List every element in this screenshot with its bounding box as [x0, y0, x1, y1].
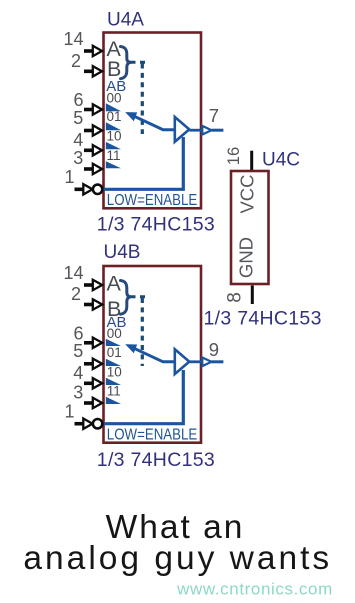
- svg-text:4: 4: [73, 130, 83, 150]
- svg-text:7: 7: [209, 105, 219, 126]
- output wire to border: [189, 129, 202, 132]
- svg-text:11: 11: [107, 148, 121, 163]
- output buffer triangle: [175, 117, 190, 142]
- pin 16 stub: [250, 151, 253, 170]
- svg-text:1/3 74HC153: 1/3 74HC153: [97, 213, 215, 235]
- pin 6 arrow: [84, 104, 102, 114]
- output arrowhead (U4B): [202, 358, 211, 367]
- pin 5 arrow (U4B): [84, 359, 102, 369]
- svg-text:5: 5: [73, 108, 83, 128]
- pin 14 arrow (U4B): [84, 280, 102, 290]
- input triangle 01 (U4B): [106, 359, 121, 366]
- svg-text:LOW=ENABLE: LOW=ENABLE: [107, 192, 198, 209]
- pin 3 arrow: [84, 164, 102, 174]
- output buffer triangle (U4B): [175, 349, 190, 374]
- input triangle 10: [106, 142, 121, 149]
- mux U4A body: [104, 33, 202, 209]
- svg-text:2: 2: [71, 284, 81, 304]
- svg-text:2: 2: [71, 51, 81, 71]
- input triangle 10 (U4B): [106, 378, 121, 385]
- svg-text:9: 9: [209, 339, 219, 360]
- mux U4B body: [104, 266, 202, 443]
- svg-text:U4C: U4C: [262, 150, 300, 171]
- svg-text:LOW=ENABLE: LOW=ENABLE: [107, 426, 198, 443]
- pin 4 arrow (U4B): [84, 378, 102, 388]
- select dashed wire horizontal: [130, 61, 145, 64]
- brace joining A and B (U4B): [121, 281, 131, 315]
- svg-text:1/3 74HC153: 1/3 74HC153: [97, 449, 215, 471]
- svg-text:GND: GND: [235, 237, 256, 278]
- pin 1 enable arrow with bubble: [75, 184, 103, 194]
- enable wire: [104, 137, 184, 189]
- pin 1 enable arrow with bubble (U4B): [75, 419, 103, 429]
- select dashed wire vertical: [141, 64, 144, 135]
- svg-text:U4A: U4A: [107, 10, 144, 31]
- svg-text:14: 14: [63, 263, 83, 283]
- pin 2 arrow: [84, 66, 102, 76]
- select dashed wire vertical (U4B): [141, 298, 144, 366]
- wiper select arrow: [125, 112, 174, 130]
- output arrowhead: [202, 126, 211, 135]
- svg-text:4: 4: [73, 363, 83, 383]
- wiper select arrow (U4B): [125, 344, 174, 362]
- svg-text:00: 00: [107, 91, 122, 106]
- svg-text:10: 10: [107, 129, 122, 144]
- svg-text:1: 1: [64, 401, 74, 421]
- brace joining A and B: [121, 47, 131, 79]
- svg-text:14: 14: [63, 29, 83, 49]
- pin 3 arrow (U4B): [84, 398, 102, 408]
- output wire to border (U4B): [189, 360, 202, 363]
- input triangle 01: [106, 122, 121, 130]
- svg-text:11: 11: [107, 383, 121, 398]
- pin 14 arrow: [84, 46, 102, 56]
- svg-text:A: A: [107, 272, 122, 296]
- svg-text:8: 8: [225, 292, 246, 303]
- svg-text:1/3 74HC153: 1/3 74HC153: [204, 308, 322, 330]
- pin 2 arrow (U4B): [84, 299, 102, 309]
- pin 8 stub: [251, 286, 254, 305]
- select dashed wire horizontal (U4B): [130, 295, 145, 298]
- enable wire (U4B): [104, 370, 184, 424]
- input triangle 00 (U4B): [106, 339, 121, 346]
- pin 6 arrow (U4B): [84, 338, 102, 348]
- pin 5 arrow: [84, 125, 102, 135]
- svg-text:16: 16: [225, 147, 243, 165]
- svg-text:3: 3: [73, 148, 83, 168]
- svg-text:00: 00: [107, 326, 122, 341]
- svg-text:01: 01: [107, 345, 122, 360]
- svg-text:analog guy wants: analog guy wants: [23, 540, 332, 577]
- output wire stub: [212, 129, 224, 132]
- svg-text:VCC: VCC: [236, 174, 257, 213]
- input triangle 11 (U4B): [106, 397, 121, 404]
- svg-text:10: 10: [107, 364, 122, 379]
- svg-text:1: 1: [64, 167, 74, 187]
- svg-text:www.cntronics.com: www.cntronics.com: [176, 580, 333, 599]
- svg-text:3: 3: [73, 383, 83, 403]
- output wire stub (U4B): [212, 360, 224, 363]
- input triangle 11: [106, 161, 121, 168]
- svg-text:5: 5: [73, 341, 83, 361]
- input triangle 00: [106, 103, 121, 111]
- pin 4 arrow: [84, 145, 102, 155]
- svg-text:U4B: U4B: [104, 242, 141, 263]
- power block U4C body: [231, 171, 269, 284]
